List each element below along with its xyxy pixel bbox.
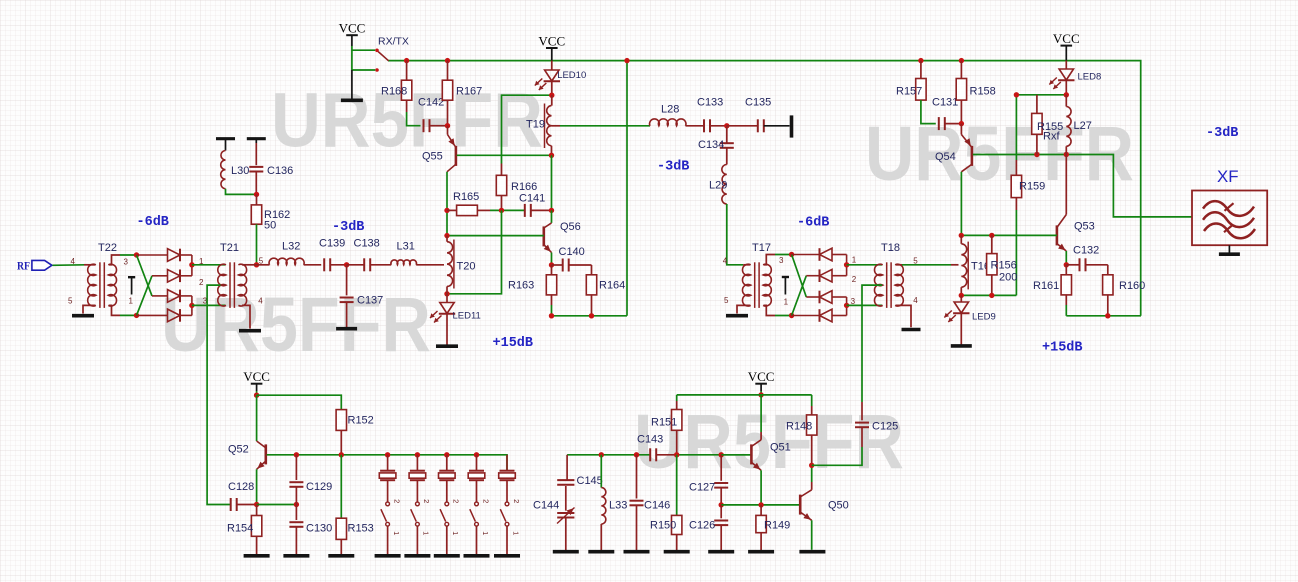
diode D2b: [806, 275, 819, 277]
crystal X2: [415, 452, 420, 457]
wire ring1 right bottom pair: [191, 296, 193, 316]
svg-text:Q51: Q51: [770, 442, 791, 454]
svg-text:1: 1: [481, 531, 490, 535]
wire switch lower throw: [352, 69, 375, 71]
resistor R154: [256, 505, 258, 516]
wire ring2 right bottom pair: [846, 297, 848, 316]
wire T18 pin5 to T16 tap: [896, 264, 902, 266]
crystal X1: [385, 452, 390, 457]
node bus-C127: [719, 452, 724, 457]
svg-text:T21: T21: [220, 242, 239, 254]
wire cross ring2 b: [792, 276, 807, 316]
node diode ring 1 top-left: [134, 252, 139, 257]
switch RX/TX: [375, 49, 379, 53]
ground R150: [664, 550, 690, 554]
node rail-R157: [918, 58, 923, 63]
node bus-L33: [599, 452, 604, 457]
ground C146: [624, 550, 650, 554]
svg-text:C136: C136: [267, 165, 293, 177]
svg-text:T17: T17: [752, 242, 771, 254]
transistor Q55: [447, 126, 449, 135]
diode D1a: [137, 254, 168, 256]
svg-text:5: 5: [724, 296, 729, 305]
wire ring2 right top pair: [846, 255, 848, 276]
node C127-emitter line: [719, 502, 724, 507]
wire R162 to T21 pin5: [256, 240, 258, 265]
wire Q52 base bus: [267, 455, 507, 471]
transformer T19: [551, 95, 553, 105]
wire RF to T22: [53, 264, 85, 267]
node VCC5: [758, 392, 763, 397]
inductor L30: [225, 139, 227, 151]
wire emitter node line: [257, 504, 297, 506]
node VCC3: [254, 393, 259, 398]
transformer T20: [447, 242, 453, 287]
svg-text:L33: L33: [609, 500, 627, 512]
resistor R157: [920, 61, 922, 79]
ground T18: [902, 328, 921, 332]
wire cross ring1 a: [137, 255, 153, 296]
wire R161-R160 bottoms to rail riser: [1066, 315, 1141, 317]
transistor Q50: [799, 495, 802, 515]
svg-text:C139: C139: [319, 237, 345, 249]
svg-text:R151: R151: [651, 417, 677, 429]
switch S2: [416, 502, 420, 506]
svg-text:C134: C134: [698, 139, 724, 151]
svg-text:C140: C140: [559, 246, 585, 258]
filter XF waves: [1203, 201, 1254, 216]
wire T19 bottom to C141 node: [551, 155, 553, 210]
node LED10 bottom: [549, 93, 554, 98]
resistor R156 200: [991, 235, 993, 253]
node bus-C129: [294, 452, 299, 457]
transformer T17: [742, 264, 750, 306]
svg-text:R160: R160: [1119, 280, 1145, 292]
ground C130: [283, 554, 309, 558]
node ring1-T21 pin3: [189, 303, 194, 308]
wire R163-R164 bottom to rail riser: [552, 315, 628, 317]
ground C126: [708, 550, 734, 554]
node R156 bottom: [989, 293, 994, 298]
svg-text:R149: R149: [764, 520, 790, 532]
capacitor C135: [727, 125, 758, 127]
svg-text:C133: C133: [697, 96, 723, 108]
svg-text:RX/TX: RX/TX: [378, 36, 409, 48]
svg-text:C146: C146: [644, 500, 670, 512]
wire VCC top rail: [388, 61, 1141, 316]
resistor R158: [960, 61, 962, 79]
transistor Q53: [1065, 155, 1067, 215]
svg-text:L27: L27: [1074, 120, 1092, 132]
svg-text:2: 2: [392, 499, 401, 503]
svg-text:1: 1: [784, 297, 789, 306]
wire T18 pin4 to ground: [896, 305, 911, 327]
wire T21 pin2 down to C128: [207, 285, 231, 504]
svg-text:R156: R156: [991, 259, 1017, 271]
ground C144: [553, 550, 579, 554]
wire VCC5 rail to R151 and R148: [677, 394, 812, 396]
resistor R168: [406, 61, 408, 81]
inductor L29: [722, 165, 727, 205]
svg-text:1: 1: [422, 531, 431, 535]
svg-text:1: 1: [199, 257, 204, 266]
svg-text:C142: C142: [418, 97, 444, 109]
svg-text:5: 5: [68, 297, 73, 306]
svg-text:R158: R158: [970, 86, 996, 98]
node ring1-T21 pin1: [189, 262, 194, 267]
wire Q54 collector down: [960, 172, 962, 236]
node base-Q54 collector-T16: [959, 233, 964, 238]
node R160 bottom: [1105, 313, 1110, 318]
ground T21: [239, 329, 261, 333]
svg-text:+15dB: +15dB: [493, 336, 534, 351]
ground R149: [748, 550, 774, 554]
inductor L28: [650, 119, 686, 126]
wire T22 pin3: [109, 255, 120, 265]
svg-text:Q52: Q52: [228, 444, 249, 456]
wire ring1 right top pair: [191, 255, 193, 276]
svg-text:5: 5: [913, 256, 918, 265]
ground X4: [464, 554, 490, 558]
ground LED11: [436, 344, 458, 348]
wire to T18 pin1: [847, 264, 883, 266]
resistor R163: [551, 265, 553, 275]
node C141-Q56 collector: [549, 208, 554, 213]
power bar C136: [247, 137, 266, 140]
svg-text:50: 50: [264, 220, 276, 232]
crystal X5: [506, 455, 508, 471]
switch S4: [475, 502, 479, 506]
wire Q56 base: [447, 235, 544, 237]
capacitor C136: [255, 139, 257, 143]
svg-text:XF: XF: [1217, 167, 1239, 186]
transistor Q51: [721, 454, 751, 456]
node C142-R167: [445, 123, 450, 128]
node C131-R158-Q54: [959, 121, 964, 126]
node T21 pin5: [254, 262, 259, 267]
svg-text:LED11: LED11: [453, 310, 481, 321]
crystal X3: [444, 452, 449, 457]
wire T19 tap output: [552, 125, 561, 127]
svg-text:R154: R154: [227, 523, 253, 535]
inductor L32: [257, 264, 270, 266]
svg-text:C137: C137: [357, 295, 383, 307]
svg-text:C131: C131: [932, 96, 958, 108]
capacitor C133: [703, 119, 705, 132]
LED LED10: [551, 61, 553, 70]
svg-text:C143: C143: [637, 434, 663, 446]
wire T21 pin4 to ground: [242, 305, 250, 328]
node T19 bottom / Q55 base: [549, 153, 554, 158]
svg-text:R168: R168: [381, 86, 407, 98]
node base-R155: [1034, 152, 1039, 157]
svg-text:-3dB: -3dB: [1206, 126, 1238, 141]
svg-text:R166: R166: [511, 181, 537, 193]
svg-text:2: 2: [852, 275, 857, 284]
node LED8-R159: [1014, 92, 1019, 97]
svg-text:4: 4: [71, 257, 76, 266]
svg-text:2: 2: [512, 499, 521, 503]
svg-text:2: 2: [452, 499, 461, 503]
svg-text:VCC: VCC: [339, 21, 366, 36]
wire to T21 pin1: [192, 264, 226, 266]
capacitor C140: [552, 264, 563, 266]
svg-text:-6dB: -6dB: [797, 216, 829, 231]
svg-text:Q56: Q56: [560, 221, 581, 233]
svg-text:3: 3: [779, 256, 784, 265]
capacitor C143: [649, 448, 651, 461]
diode D1d: [137, 314, 168, 316]
svg-text:-3dB: -3dB: [332, 220, 364, 235]
svg-text:VCC: VCC: [243, 369, 270, 384]
svg-text:R153: R153: [348, 523, 374, 535]
svg-text:R159: R159: [1019, 181, 1045, 193]
transformer T16: [960, 235, 962, 243]
LED LED11: [446, 294, 448, 303]
svg-text:UR5FFR: UR5FFR: [161, 282, 431, 368]
LED LED8: [1065, 61, 1067, 69]
resistor R160: [1103, 275, 1113, 295]
svg-text:4: 4: [258, 297, 263, 306]
wire Q51 emitter line: [721, 504, 800, 506]
wire T22 pin1: [109, 305, 120, 315]
ground side bar after C135: [790, 115, 794, 137]
resistor R148: [811, 395, 813, 406]
svg-text:-3dB: -3dB: [657, 160, 689, 175]
node LED8 bottom: [1064, 92, 1069, 97]
diode D2d: [792, 315, 820, 317]
svg-text:2: 2: [422, 499, 431, 503]
svg-text:L29: L29: [709, 180, 727, 192]
svg-text:VCC: VCC: [748, 369, 775, 384]
wire LED10 node to R166: [502, 95, 552, 163]
node ring2-T18 pin1: [844, 262, 849, 267]
node rail riser: [624, 58, 629, 63]
capacitor C141: [524, 204, 526, 217]
diode D2c: [806, 296, 819, 298]
svg-text:1: 1: [511, 531, 520, 535]
svg-text:VCC: VCC: [538, 34, 565, 49]
capacitor C145: [566, 455, 568, 480]
node rail-R158: [959, 58, 964, 63]
svg-text:R164: R164: [599, 280, 625, 292]
svg-text:C126: C126: [689, 520, 715, 532]
diode D1c: [152, 295, 168, 297]
ground LED9: [951, 344, 972, 348]
svg-text:1: 1: [451, 531, 460, 535]
capacitor C131: [921, 100, 936, 124]
svg-text:R161: R161: [1033, 280, 1059, 292]
resistor R167: [447, 61, 449, 81]
transformer T22: [88, 264, 96, 306]
svg-text:T18: T18: [881, 242, 900, 254]
svg-text:T20: T20: [457, 261, 476, 273]
wire VCC1 to switch: [351, 46, 353, 70]
svg-text:C141: C141: [519, 193, 545, 205]
svg-text:Q53: Q53: [1074, 221, 1095, 233]
node R148-Q50 collector-C125: [809, 463, 814, 468]
wire to ground: [351, 70, 353, 99]
inductor L27: [1065, 95, 1067, 107]
svg-text:200: 200: [999, 272, 1017, 284]
svg-text:C132: C132: [1073, 245, 1099, 257]
ground T17: [726, 314, 748, 318]
node ring2 top-left: [789, 252, 794, 257]
inductor L33: [600, 455, 602, 488]
node bus-R151/R150: [674, 452, 679, 457]
svg-text:R150: R150: [650, 520, 676, 532]
power bar L30: [216, 137, 235, 140]
wire to T18 pin3: [847, 304, 883, 306]
resistor R164: [586, 275, 596, 295]
svg-text:L30: L30: [231, 165, 249, 177]
svg-text:+15dB: +15dB: [1042, 341, 1083, 356]
svg-text:Q55: Q55: [422, 151, 443, 163]
LED LED9: [960, 295, 962, 302]
crystal X4: [474, 452, 479, 457]
node base-L27: [1064, 152, 1069, 157]
svg-text:1: 1: [129, 297, 134, 306]
svg-text:R167: R167: [456, 86, 482, 98]
resistor R165: [447, 209, 457, 211]
transformer T21: [218, 264, 226, 306]
svg-text:2: 2: [481, 499, 490, 503]
svg-text:4: 4: [723, 256, 728, 265]
capacitor C129: [295, 455, 297, 480]
wire Q55 base to T19 bottom: [457, 154, 552, 156]
wire T18 pin2 down: [862, 285, 882, 402]
ground X3: [434, 554, 460, 558]
capacitor C130: [295, 505, 297, 521]
resistor R159: [1015, 95, 1017, 160]
capacitor C126: [720, 505, 722, 518]
wire Q55 collector down: [446, 172, 448, 236]
capacitor C139: [323, 258, 325, 271]
wire Q54 base to XF input: [973, 155, 1192, 217]
wire T17 pin1: [764, 305, 775, 315]
wire T22 pin5 to ground: [83, 305, 95, 313]
wire T17 pin5 to ground: [737, 305, 750, 313]
capacitor C138: [347, 264, 365, 266]
node base-R156: [989, 233, 994, 238]
svg-text:C127: C127: [689, 482, 715, 494]
ground L33: [588, 550, 614, 554]
ground C137: [336, 327, 357, 331]
resistor R162 50: [256, 194, 258, 205]
svg-text:C144: C144: [533, 500, 559, 512]
node rail-R168: [404, 58, 409, 63]
node Q56 base / T20 top: [444, 233, 449, 238]
resistor R151: [676, 395, 678, 401]
switch S3: [445, 502, 449, 506]
inductor L31: [391, 260, 417, 265]
svg-text:C128: C128: [228, 481, 254, 493]
resistor R152: [336, 410, 346, 431]
resistor R155 Rxf: [1036, 95, 1038, 114]
node Q53 emitter: [1064, 262, 1069, 267]
svg-text:LED10: LED10: [557, 70, 586, 81]
svg-text:C138: C138: [354, 237, 380, 249]
capacitor C144 variable: [557, 512, 574, 514]
node ring2 bottom-left: [789, 313, 794, 318]
svg-text:R152: R152: [348, 415, 374, 427]
svg-text:3: 3: [851, 297, 856, 306]
svg-text:4: 4: [913, 296, 918, 305]
diode D1b: [152, 275, 168, 277]
ground R154: [244, 554, 270, 558]
transistor Q54: [960, 124, 962, 135]
node C133-C134: [724, 123, 729, 128]
svg-text:2: 2: [199, 278, 204, 287]
node Q55-R165: [444, 208, 449, 213]
node diode ring 1 bottom-left: [134, 313, 139, 318]
svg-text:C125: C125: [872, 421, 898, 433]
node T20 bottom: [444, 291, 449, 296]
svg-text:C129: C129: [306, 481, 332, 493]
svg-text:L32: L32: [282, 241, 300, 253]
wire cross ring2 a: [792, 255, 807, 298]
wire L29 to T17 pin4: [727, 204, 743, 265]
capacitor C137: [346, 265, 348, 296]
wire VCC3 to R152: [257, 395, 342, 409]
node C139-C138-C137: [344, 262, 349, 267]
wire T17 pin3: [764, 255, 775, 265]
svg-text:L31: L31: [397, 241, 415, 253]
center tap mark T17: [782, 276, 789, 278]
capacitor C142: [423, 119, 425, 132]
switch S5: [505, 502, 509, 506]
ground XF: [1228, 245, 1230, 253]
resistor R161: [1065, 265, 1067, 275]
diode D2a: [792, 254, 820, 256]
wire cross ring1 b: [137, 276, 153, 316]
node C128-Q52 emitter-R154: [254, 502, 259, 507]
svg-text:LED9: LED9: [972, 312, 996, 323]
node ring2-T18 pin3: [844, 303, 849, 308]
transistor Q52: [256, 395, 258, 441]
svg-text:1: 1: [392, 531, 401, 535]
svg-text:1: 1: [852, 256, 857, 265]
node T16 bottom: [959, 293, 964, 298]
node Q56 emitter: [549, 262, 554, 267]
transformer T18: [874, 264, 882, 306]
svg-text:VCC: VCC: [1053, 31, 1080, 46]
wire R166 node down to T20 bottom: [447, 210, 502, 293]
ground below switch: [341, 99, 363, 103]
svg-text:LED8: LED8: [1078, 72, 1102, 83]
svg-text:3: 3: [124, 257, 129, 266]
svg-text:Rxf: Rxf: [1043, 131, 1060, 143]
capacitor C146: [636, 455, 638, 499]
ground X1: [375, 554, 401, 558]
resistor R150: [676, 455, 678, 516]
ground X2: [404, 554, 430, 558]
resistor R149: [760, 505, 762, 516]
capacitor C125: [861, 402, 863, 420]
svg-text:C130: C130: [306, 523, 332, 535]
node L30-C136-R162: [254, 192, 259, 197]
svg-text:C135: C135: [745, 96, 771, 108]
svg-text:R148: R148: [786, 421, 812, 433]
svg-text:-6dB: -6dB: [137, 215, 169, 230]
svg-text:L28: L28: [661, 104, 679, 116]
svg-text:R157: R157: [896, 86, 922, 98]
svg-text:R163: R163: [508, 280, 534, 292]
capacitor C127: [720, 455, 722, 481]
ground Q50: [799, 550, 825, 554]
svg-text:C145: C145: [577, 475, 603, 487]
node R166-R165 line: [499, 208, 504, 213]
